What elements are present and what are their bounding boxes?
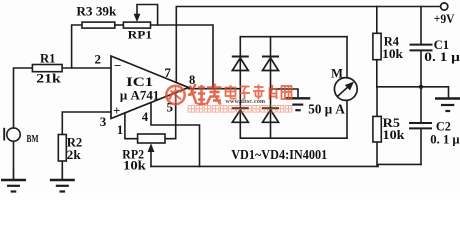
svg-text:μ A741: μ A741	[120, 88, 159, 103]
svg-text:R3 39k: R3 39k	[76, 5, 116, 19]
svg-text:21k: 21k	[36, 71, 61, 86]
svg-text:+: +	[113, 103, 120, 118]
svg-text:+9V: +9V	[434, 12, 455, 26]
svg-text:10k: 10k	[382, 46, 404, 61]
svg-text:RP1: RP1	[128, 29, 153, 41]
svg-text:R1: R1	[40, 51, 56, 66]
svg-text:4: 4	[142, 110, 149, 124]
svg-text:50 μ A: 50 μ A	[308, 102, 345, 117]
svg-text:VD1~VD4:IN4001: VD1~VD4:IN4001	[231, 148, 327, 163]
svg-text:10k: 10k	[123, 157, 147, 172]
svg-text:M: M	[331, 66, 343, 80]
svg-text:10k: 10k	[383, 127, 406, 142]
svg-text:1: 1	[117, 123, 123, 137]
svg-text:www.dzsc.com: www.dzsc.com	[226, 99, 266, 105]
svg-text:3: 3	[100, 114, 107, 129]
svg-text:−: −	[114, 58, 121, 73]
svg-text:0. 1 μ: 0. 1 μ	[424, 49, 460, 64]
svg-text:2k: 2k	[67, 147, 82, 162]
svg-text:BM: BM	[27, 133, 39, 145]
svg-text:7: 7	[164, 65, 171, 80]
svg-text:2: 2	[95, 52, 102, 67]
svg-text:0. 1 μ: 0. 1 μ	[430, 131, 460, 146]
